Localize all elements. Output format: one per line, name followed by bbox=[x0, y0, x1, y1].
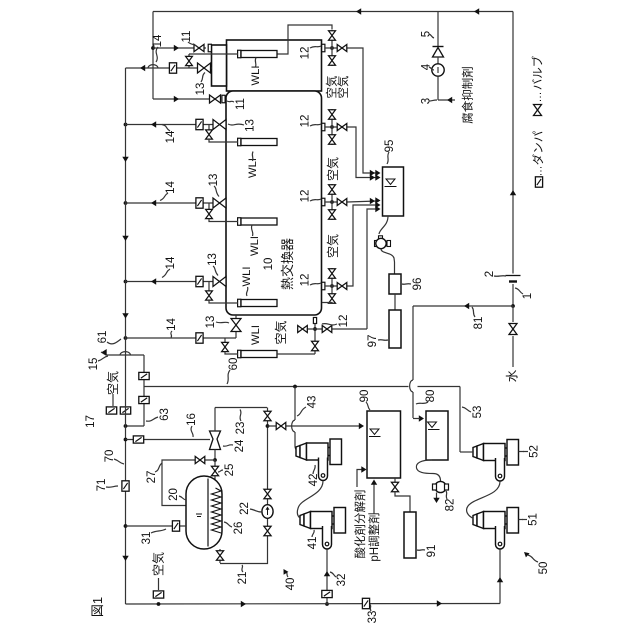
svg-text:熱交換器: 熱交換器 bbox=[280, 238, 295, 290]
svg-text:12: 12 bbox=[338, 315, 350, 328]
svg-text:空気: 空気 bbox=[151, 552, 166, 576]
svg-text:13: 13 bbox=[207, 253, 219, 266]
svg-text:16: 16 bbox=[186, 413, 198, 426]
svg-text:12: 12 bbox=[299, 190, 311, 203]
svg-text:空気: 空気 bbox=[325, 234, 340, 258]
svg-text:…: … bbox=[532, 92, 544, 103]
svg-text:41: 41 bbox=[307, 537, 319, 550]
svg-text:空気: 空気 bbox=[325, 157, 340, 181]
svg-text:5: 5 bbox=[420, 31, 432, 37]
svg-text:26: 26 bbox=[233, 522, 245, 535]
svg-text:13: 13 bbox=[244, 119, 256, 132]
svg-text:20: 20 bbox=[168, 488, 180, 501]
svg-text:腐食抑制剤: 腐食抑制剤 bbox=[460, 66, 474, 124]
svg-text:43: 43 bbox=[306, 396, 318, 409]
svg-text:50: 50 bbox=[538, 562, 550, 575]
svg-text:13: 13 bbox=[205, 316, 217, 329]
svg-text:空気: 空気 bbox=[324, 75, 338, 98]
svg-text:ダンパ: ダンパ bbox=[531, 130, 545, 165]
svg-text:27: 27 bbox=[146, 471, 158, 484]
svg-text:14: 14 bbox=[165, 256, 177, 269]
svg-text:17: 17 bbox=[85, 415, 97, 428]
svg-text:14: 14 bbox=[165, 130, 177, 143]
svg-text:WLI: WLI bbox=[250, 325, 262, 345]
svg-text:80: 80 bbox=[425, 390, 437, 403]
svg-text:14: 14 bbox=[166, 318, 178, 331]
svg-text:11: 11 bbox=[181, 31, 193, 43]
svg-text:25: 25 bbox=[224, 464, 236, 477]
svg-text:1: 1 bbox=[522, 293, 534, 299]
svg-text:15: 15 bbox=[88, 358, 100, 371]
svg-text:13: 13 bbox=[195, 83, 207, 96]
svg-text:21: 21 bbox=[237, 572, 249, 585]
svg-text:51: 51 bbox=[527, 513, 539, 526]
svg-text:96: 96 bbox=[412, 278, 424, 291]
svg-text:10: 10 bbox=[263, 258, 275, 271]
svg-text:42: 42 bbox=[308, 474, 320, 487]
svg-text:60: 60 bbox=[228, 358, 240, 371]
svg-text:水: 水 bbox=[505, 369, 519, 382]
svg-text:70: 70 bbox=[104, 450, 116, 463]
svg-text:81: 81 bbox=[473, 317, 485, 330]
svg-text:53: 53 bbox=[472, 406, 484, 419]
svg-text:24: 24 bbox=[234, 439, 246, 452]
svg-text:空気: 空気 bbox=[336, 75, 350, 98]
svg-text:97: 97 bbox=[367, 335, 379, 348]
svg-text:…: … bbox=[533, 166, 545, 177]
svg-text:22: 22 bbox=[239, 502, 251, 515]
svg-text:82: 82 bbox=[444, 499, 456, 512]
svg-text:バルブ: バルブ bbox=[530, 55, 544, 90]
svg-text:61: 61 bbox=[97, 331, 109, 344]
svg-text:空気: 空気 bbox=[273, 320, 288, 344]
svg-text:WLI: WLI bbox=[241, 267, 253, 287]
svg-text:11: 11 bbox=[235, 98, 247, 110]
svg-text:14: 14 bbox=[152, 34, 164, 47]
svg-text:空気: 空気 bbox=[105, 371, 120, 395]
svg-text:63: 63 bbox=[159, 408, 171, 421]
svg-text:12: 12 bbox=[299, 47, 311, 60]
svg-text:12: 12 bbox=[299, 115, 311, 128]
svg-text:WLI: WLI bbox=[249, 236, 261, 256]
svg-text:12: 12 bbox=[299, 274, 311, 287]
svg-text:23: 23 bbox=[235, 422, 247, 435]
svg-text:酸化剤分解剤: 酸化剤分解剤 bbox=[353, 490, 367, 559]
svg-text:32: 32 bbox=[336, 574, 348, 587]
svg-text:14: 14 bbox=[165, 181, 177, 194]
svg-text:31: 31 bbox=[141, 532, 153, 545]
svg-text:13: 13 bbox=[208, 174, 220, 187]
svg-text:33: 33 bbox=[367, 611, 379, 624]
svg-text:図1: 図1 bbox=[90, 597, 105, 617]
svg-text:95: 95 bbox=[384, 140, 396, 153]
svg-text:WLI: WLI bbox=[250, 66, 262, 86]
svg-text:71: 71 bbox=[96, 479, 108, 492]
svg-text:91: 91 bbox=[426, 545, 438, 558]
svg-text:90: 90 bbox=[359, 390, 371, 403]
svg-text:40: 40 bbox=[285, 578, 297, 591]
svg-text:4: 4 bbox=[420, 63, 432, 70]
svg-text:pH調整剤: pH調整剤 bbox=[367, 512, 381, 561]
svg-text:52: 52 bbox=[528, 445, 540, 458]
